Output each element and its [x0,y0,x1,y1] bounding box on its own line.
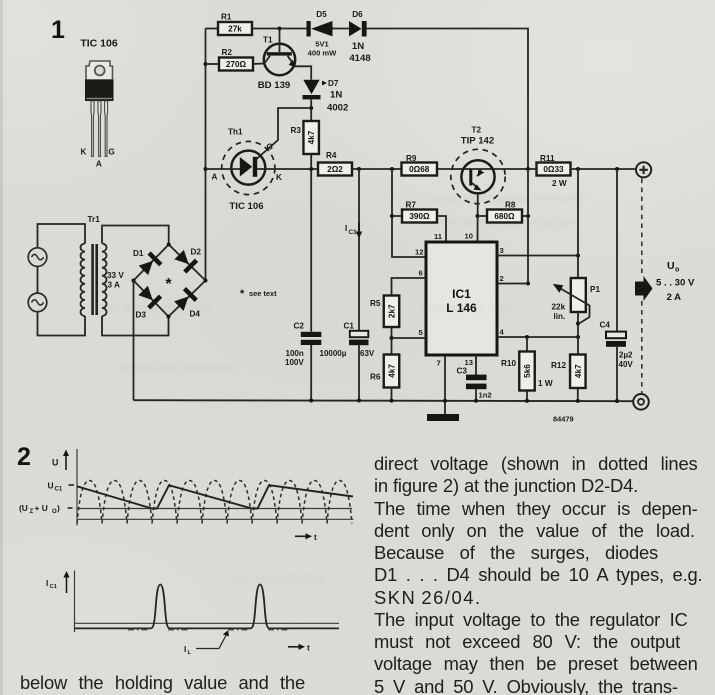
capacitor C2 [285,322,321,368]
node R3 rail junction [309,167,313,171]
svg-text:P1: P1 [590,285,600,294]
node rail x528 junction [526,167,530,171]
svg-text:2Ω2: 2Ω2 [327,165,343,174]
junction bottom rail C1 [357,399,361,403]
diode D3 [137,285,162,310]
svg-text:): ) [57,503,60,513]
node bridge bottom [167,315,171,319]
wire C2 to bottom rail [310,345,312,400]
svg-text:C1: C1 [50,584,58,590]
svg-text:G: G [267,143,273,152]
svg-text:I: I [345,224,347,233]
output arrow Uo [635,260,695,303]
svg-text:2k7: 2k7 [388,304,397,318]
node C1 top junction [357,167,361,171]
svg-text:1N: 1N [330,90,342,101]
svg-text:C3: C3 [457,367,468,376]
wire R8 lead right [522,215,528,217]
node R8 right junction [526,214,530,218]
svg-text:K: K [276,173,282,182]
svg-text:C4: C4 [600,321,611,330]
svg-text:D1: D1 [133,249,144,258]
wire D6 to right corner and down [367,29,529,170]
svg-text:D5: D5 [316,10,327,19]
wire pin2 [497,283,528,285]
resistor R2 [219,48,253,71]
svg-text:Tr1: Tr1 [88,215,101,224]
svg-text:Z: Z [30,509,34,515]
node bridge top [167,243,171,247]
resistor R7 [402,201,437,223]
value label 2W [552,179,567,188]
wire rail to C4 [616,169,618,332]
svg-text:R1: R1 [221,13,232,22]
zener diode D5 [307,10,338,58]
svg-text:R6: R6 [370,373,381,382]
transformer core [91,244,98,315]
svg-text:*: * [240,288,245,300]
figure label 1 [51,16,65,44]
pin label 4 [500,328,505,337]
wire primary bottom [38,312,86,336]
svg-text:11: 11 [434,232,443,241]
svg-text:100V: 100V [285,358,304,367]
svg-text:C1: C1 [349,229,358,236]
svg-text:270Ω: 270Ω [226,60,247,69]
svg-text:D6: D6 [352,10,363,19]
resistor R5 [370,296,399,328]
resistor R3 [291,121,319,154]
svg-text:63V: 63V [360,349,375,358]
node R7 left junction [390,214,394,218]
wire primary top [38,224,86,248]
ground [427,414,459,421]
svg-text:C1: C1 [344,322,355,331]
graph level lines [77,509,354,520]
wire pin4 to R10 [526,337,528,352]
wire R6 to bottom rail [391,388,393,401]
wire R2 to T1 [252,63,265,66]
wire C1 to bottom rail [358,345,360,400]
svg-text:see text: see text [249,289,277,298]
wire secondary bottom [102,316,169,336]
svg-text:TIP 142: TIP 142 [461,136,494,147]
terminal zero output [633,394,649,410]
svg-text:G: G [108,148,114,157]
svg-text:Th1: Th1 [228,128,243,137]
junction bottom rail C4 [615,399,619,403]
svg-text:27k: 27k [228,25,242,34]
wire R4 to R9 [352,168,402,170]
wire node to R6 [391,338,393,355]
wire R7 lead left [392,215,402,217]
transformer primary winding [81,244,86,317]
wire P1 bottom [577,312,579,337]
svg-text:t: t [314,533,317,542]
pin label 2 [500,274,504,283]
svg-text:40V: 40V [619,360,634,369]
node asterisk see-text [165,276,172,293]
svg-text:R2: R2 [222,48,233,57]
svg-text:IC1: IC1 [452,287,471,301]
value label 33V 3A [107,271,124,290]
diode label D4 [190,310,201,319]
wire R5 to pin5 node [391,327,393,338]
svg-text:1n2: 1n2 [479,391,492,400]
wire D5 to D6 [333,28,350,30]
wire rail to C1 [358,169,360,331]
junction left bus / thyristor anode [204,167,208,171]
svg-text:U: U [667,260,675,272]
svg-text:D2: D2 [191,248,202,257]
AC source upper [28,248,47,267]
svg-text:A: A [96,160,102,169]
junction bottom rail C3 [474,399,478,403]
svg-text:4: 4 [500,328,505,337]
potentiometer P1 [552,278,601,323]
TIC 106 package drawing [80,38,118,169]
graph U axis [52,449,77,526]
net number 84479 [553,415,574,424]
svg-text:lin.: lin. [554,312,566,321]
wire T1 emitter to D7 [295,66,311,79]
label UC1 [48,481,75,493]
resistor R11 [537,154,571,176]
wire pin4 [497,336,578,338]
wire R3 to rail [310,154,312,169]
wire R8 lead left [478,215,488,217]
wire R7 to pin11 [437,216,446,242]
svg-text:2 W: 2 W [552,179,567,188]
svg-text:U: U [48,481,54,491]
svg-text:D7: D7 [328,79,339,88]
node emitter R8 junction [476,214,480,218]
svg-text:t: t [307,644,310,653]
terminal plus output [636,162,651,177]
pin label 7 [437,359,441,368]
wire R12 to bottom rail [577,388,579,400]
AC source lower [28,293,47,312]
svg-text:4002: 4002 [327,103,348,114]
svg-text:R11: R11 [540,154,555,163]
resistor R6 [370,355,399,388]
wire R2 row left [206,63,220,65]
node bridge left [132,279,136,283]
svg-text:L: L [188,650,192,656]
svg-text:BD 139: BD 139 [258,80,291,91]
diode label D2 [191,248,202,257]
node R10 top junction [525,335,529,339]
svg-text:T2: T2 [472,126,482,135]
svg-text:R12: R12 [551,361,566,370]
wire pin5 [392,337,427,339]
dashed output line [641,179,643,394]
node D7 cathode / gate / R3 [309,106,313,110]
svg-text:R10: R10 [501,359,516,368]
wire R11 to plus terminal [571,168,636,170]
figure label 2 [17,443,31,471]
capacitor C4 [600,321,634,370]
IC1 pulse waveform [75,585,340,629]
diode D7 [303,79,349,114]
svg-text:5: 5 [419,328,424,337]
pin label 13 [465,358,473,367]
svg-text:4k7: 4k7 [388,364,397,378]
junction bottom rail pin7 [443,399,447,403]
resistor R10 [501,352,535,391]
svg-text:10000µ: 10000µ [320,349,347,358]
svg-text:22k: 22k [552,303,566,312]
svg-text:7: 7 [437,359,441,368]
value label 1W [538,379,553,388]
wire D7 to node [310,99,312,121]
op-amp regulator IC1 L146 [426,242,497,355]
svg-text:R4: R4 [326,151,337,160]
note see text [240,288,277,300]
transistor T1 BD139 [258,29,296,92]
svg-text:4k7: 4k7 [307,130,316,144]
wire R1 to D5 [252,28,308,30]
svg-text:100n: 100n [286,349,304,358]
diode D1 [138,251,163,276]
wire R10 to bottom rail [526,391,528,401]
svg-text:TIC 106: TIC 106 [80,38,118,50]
diode D4 [173,287,198,312]
pin label 3 [500,246,504,255]
node R11 right junction [576,167,580,171]
pin label 5 [419,328,424,337]
svg-text:3: 3 [500,246,504,255]
svg-text:(U: (U [19,503,28,513]
wire cathode to R4 [257,168,318,170]
wire left vertical bus [205,29,207,281]
resistor R1 [218,13,252,36]
diode label D1 [133,249,144,258]
wire C3 to bottom rail [475,389,477,400]
node bridge right [204,279,208,283]
wire T2 emitter to pin10 [477,193,479,242]
svg-text:3 A: 3 A [108,281,121,290]
junction bottom rail R12 [576,399,580,403]
capacitor C3 [457,367,492,400]
label UZ plus UO [19,503,73,515]
wire pin7 to ground [444,355,446,414]
transformer secondary winding [102,244,107,317]
wire P1 node to R12 [577,337,579,355]
svg-text:4148: 4148 [349,53,371,64]
sawtooth UC1 waveform [77,485,353,508]
junction left bus / R2 row [204,62,208,66]
load current level line [75,622,340,624]
wire rail to P1 [577,169,579,278]
current arrow IC1 [345,222,362,239]
svg-text:2µ2: 2µ2 [619,351,633,360]
svg-text:+ U: + U [35,503,48,513]
svg-text:R9: R9 [406,154,417,163]
wire gate from node [257,108,312,159]
svg-text:5k6: 5k6 [523,364,532,378]
t axis arrow graph1 [295,533,317,542]
capacitor C1 [320,322,375,359]
node R12 top junction [576,335,580,339]
node P1 wiper junction [576,322,580,326]
transistor T2 TIP142 [451,126,505,204]
wire T2 to R11 junction [493,168,537,170]
resistor R12 [551,355,586,389]
svg-text:C1: C1 [55,487,63,493]
svg-text:TIC 106: TIC 106 [229,201,263,212]
node R9 left junction [390,167,394,171]
svg-text:33 V: 33 V [107,271,124,280]
transformer Tr1 label [88,215,101,224]
svg-text:1 W: 1 W [538,379,553,388]
resistor R9 [402,154,438,176]
svg-text:R3: R3 [291,126,302,135]
svg-text:C2: C2 [294,322,305,331]
svg-text:A: A [212,173,218,182]
diode D6 [349,10,371,64]
wire bottom rail [134,400,634,401]
bridge rectifier frame [134,245,206,317]
svg-text:2: 2 [500,274,504,283]
wire R1 row left [206,28,219,30]
wire pin3 [497,255,578,257]
svg-text:2: 2 [17,443,31,471]
svg-text:6: 6 [419,269,423,278]
svg-text:10: 10 [465,232,473,241]
svg-text:390Ω: 390Ω [409,212,430,221]
svg-text:1N: 1N [352,41,364,52]
svg-text:U: U [52,458,58,468]
wire pin13 to C3 [475,355,477,375]
label IL pointer [184,630,229,656]
wire x392 rail to pin12 [392,169,426,257]
svg-text:o: o [675,267,679,274]
node pin2 junction [526,282,530,286]
svg-text:*: * [165,276,172,293]
diode D2 [173,249,198,274]
resistor R4 [318,151,352,176]
junction bottom rail R6 [390,399,394,403]
junction bottom rail C2 [309,398,313,402]
svg-text:84479: 84479 [553,415,574,424]
svg-text:4k7: 4k7 [574,364,583,378]
pin label 11 [434,232,443,241]
wire x528 rail to pin2 [527,169,529,284]
pin label 6 [419,269,423,278]
wire pin6 to R5 [392,278,427,296]
svg-text:5 . . 30 V: 5 . . 30 V [656,278,695,289]
node T1 base junction [278,27,282,31]
wire anode [206,168,241,170]
pin label 10 [465,232,473,241]
svg-text:0Ω33: 0Ω33 [543,165,564,174]
svg-text:T1: T1 [263,36,273,45]
svg-text:R5: R5 [370,299,381,308]
wire bridge minus down [133,281,135,401]
svg-text:2 A: 2 A [667,292,682,303]
svg-text:R7: R7 [406,201,417,210]
wire C4 to bottom rail [616,347,618,400]
diode label D3 [136,311,147,320]
resistor R8 [487,201,522,223]
wire primary mid [37,267,39,294]
wire R9 to T2 [437,168,464,170]
t axis arrow graph2 [288,644,310,653]
node C4 top junction [615,167,619,171]
dashed rectified sine waveform [77,481,352,524]
svg-text:12: 12 [415,248,423,257]
svg-text:0Ω68: 0Ω68 [409,165,430,174]
svg-text:400 mW: 400 mW [308,49,338,58]
node pin5 junction [390,336,394,340]
svg-text:K: K [81,148,87,157]
dash-dot baseline marks [128,629,288,631]
wire rail to C2 [310,169,312,332]
svg-text:I: I [46,579,48,588]
graph IC1 axis [46,571,75,633]
thyristor Th1 TIC106 [212,128,283,213]
node pin3 P1 junction [576,254,580,258]
svg-text:5V1: 5V1 [315,40,329,49]
wire secondary top [102,226,169,245]
svg-text:1: 1 [51,16,65,44]
pin label 12 [415,248,423,257]
junction bottom rail R10 [525,399,529,403]
svg-text:I: I [184,645,186,654]
